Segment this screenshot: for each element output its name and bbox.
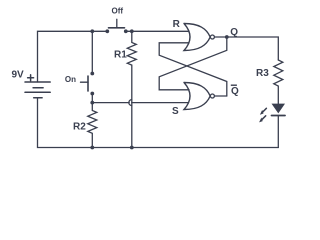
svg-text:9V: 9V <box>12 70 25 81</box>
svg-text:R1: R1 <box>114 50 127 61</box>
svg-text:R: R <box>173 19 181 30</box>
svg-text:S: S <box>172 106 179 117</box>
svg-text:Q: Q <box>230 27 238 38</box>
svg-text:Q: Q <box>231 86 239 97</box>
svg-text:R3: R3 <box>256 68 269 79</box>
svg-text:On: On <box>65 75 76 84</box>
svg-text:Off: Off <box>112 7 124 16</box>
svg-text:R2: R2 <box>73 122 86 133</box>
